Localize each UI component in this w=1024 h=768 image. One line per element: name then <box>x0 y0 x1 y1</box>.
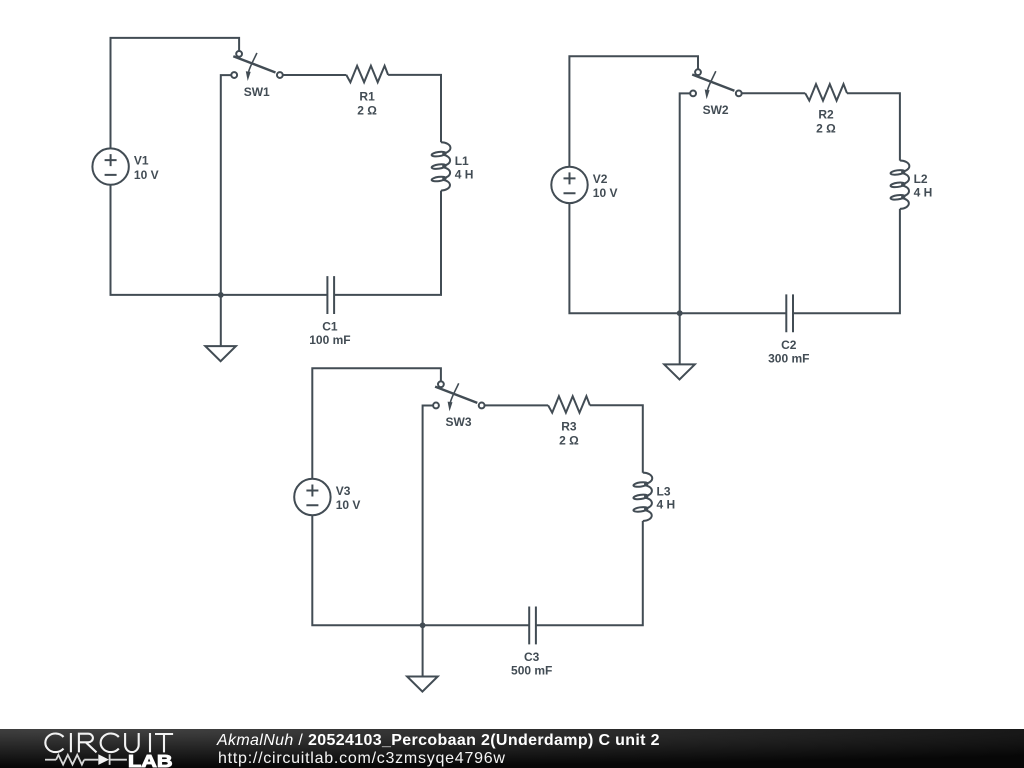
svg-text:100 mF: 100 mF <box>309 333 350 347</box>
svg-text:L3: L3 <box>657 484 671 498</box>
svg-text:C1: C1 <box>322 320 338 334</box>
svg-text:SW2: SW2 <box>703 103 729 117</box>
svg-text:2 Ω: 2 Ω <box>357 103 377 117</box>
svg-text:R2: R2 <box>818 108 834 122</box>
svg-text:L2: L2 <box>914 172 928 186</box>
svg-text:L1: L1 <box>455 154 469 168</box>
svg-text:C2: C2 <box>781 338 797 352</box>
svg-text:2 Ω: 2 Ω <box>559 434 579 448</box>
svg-text:C3: C3 <box>524 650 540 664</box>
svg-text:R3: R3 <box>561 420 577 434</box>
svg-text:V1: V1 <box>134 154 149 168</box>
svg-text:300 mF: 300 mF <box>768 352 809 366</box>
svg-text:10 V: 10 V <box>134 168 159 182</box>
svg-text:R1: R1 <box>359 89 375 103</box>
svg-text:10 V: 10 V <box>593 186 618 200</box>
svg-text:4 H: 4 H <box>455 167 474 181</box>
svg-text:V3: V3 <box>336 484 351 498</box>
svg-text:4 H: 4 H <box>657 498 676 512</box>
svg-text:SW3: SW3 <box>445 415 471 429</box>
svg-text:2 Ω: 2 Ω <box>816 122 836 136</box>
svg-text:SW1: SW1 <box>244 85 270 99</box>
svg-text:V2: V2 <box>593 172 608 186</box>
svg-text:4 H: 4 H <box>914 186 933 200</box>
svg-text:500 mF: 500 mF <box>511 664 552 678</box>
svg-text:LAB: LAB <box>128 751 173 768</box>
svg-text:10 V: 10 V <box>336 498 361 512</box>
